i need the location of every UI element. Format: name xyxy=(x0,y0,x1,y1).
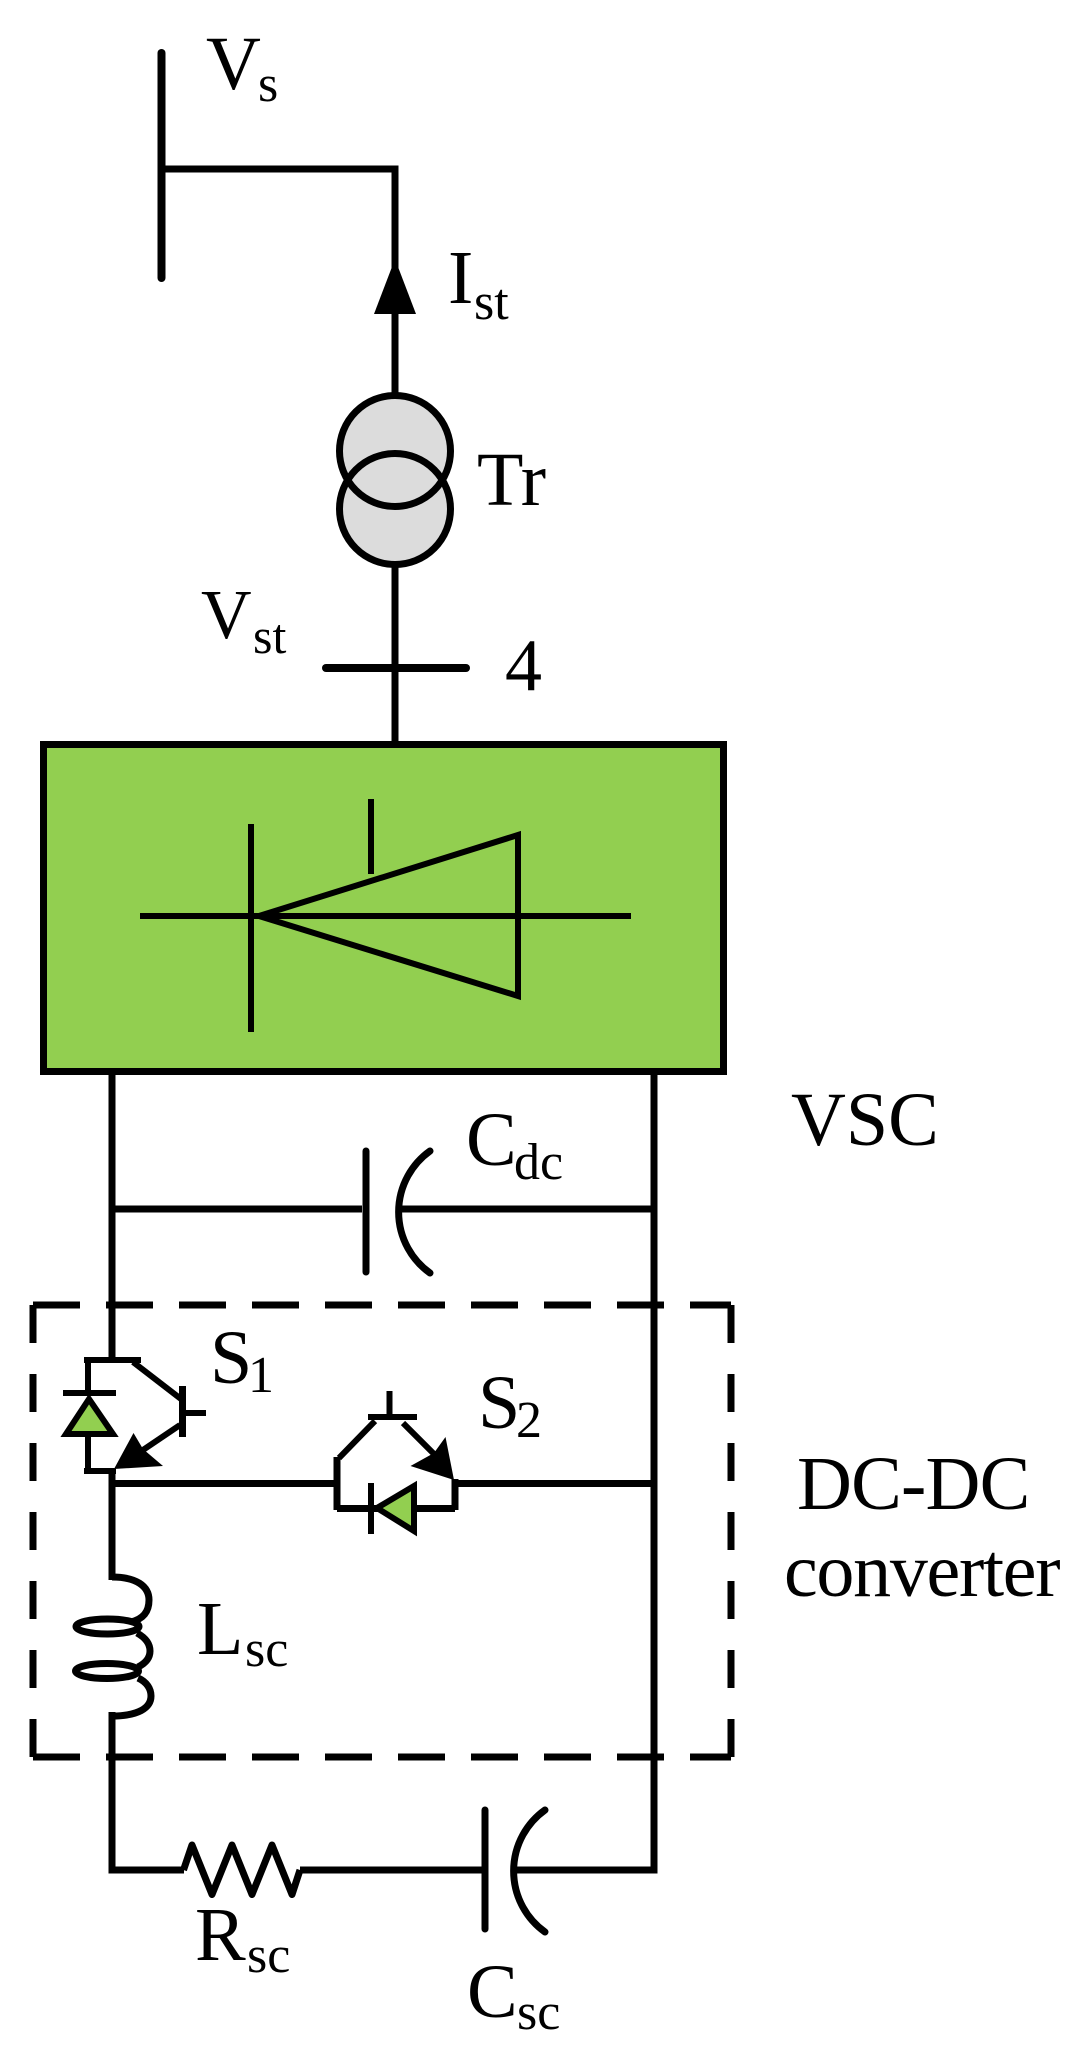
label Vst xyxy=(201,577,286,664)
label Lsc xyxy=(197,1587,288,1678)
wire Lsc to bottom rail xyxy=(109,1712,116,1874)
svg-text:1: 1 xyxy=(248,1347,274,1404)
transformer Tr (two overlapping circles) xyxy=(340,396,451,565)
switch S2: left terminal bar xyxy=(334,1457,341,1510)
resistor Rsc (zigzag) xyxy=(184,1845,301,1895)
svg-text:V: V xyxy=(201,577,252,654)
svg-text:2: 2 xyxy=(516,1392,542,1449)
capacitor Csc: curved plate xyxy=(514,1810,545,1932)
svg-text:sc: sc xyxy=(517,1984,560,2041)
switch S1: IGBT emitter diagonal xyxy=(140,1425,180,1452)
wire S1 to mid node xyxy=(109,1468,116,1580)
switch S2: emitter diagonal xyxy=(403,1423,436,1456)
diode D1 cathode bar xyxy=(63,1390,116,1396)
wire resistor to Csc xyxy=(300,1867,483,1874)
DC-DC converter dashed box xyxy=(33,1305,731,1757)
VSC valve symbol: horizontal line xyxy=(140,913,631,919)
wire left dc lead from VSC xyxy=(109,1075,116,1360)
capacitor Cdc: curved plate xyxy=(399,1151,430,1273)
switch S1: IGBT emitter arrow xyxy=(114,1433,163,1469)
label Ist xyxy=(448,236,509,331)
switch S1: IGBT collector diagonal xyxy=(133,1362,181,1399)
wire from Vs bus to transformer xyxy=(158,169,395,400)
label Cdc xyxy=(466,1098,563,1191)
wire bottom rail to resistor xyxy=(112,1867,184,1874)
switch S1: IGBT bar xyxy=(179,1386,186,1437)
svg-text:VSC: VSC xyxy=(791,1078,939,1162)
inductor Lsc coil xyxy=(76,1577,152,1716)
label 4 (bus number) xyxy=(505,625,542,707)
wire mid rail right (S2 to right lead) xyxy=(452,1480,654,1487)
svg-text:V: V xyxy=(206,22,261,106)
label converter xyxy=(784,1529,1060,1613)
wire Csc to right lead xyxy=(513,1867,654,1874)
switch S2: collector diagonal xyxy=(339,1421,375,1458)
switch S1: IGBT gate lead xyxy=(185,1410,206,1416)
VSC valve symbol: left cathode bar xyxy=(248,824,254,1032)
bus 4 (horizontal bus bar Vst) xyxy=(326,664,466,672)
svg-text:sc: sc xyxy=(247,1927,290,1984)
svg-text:S: S xyxy=(478,1361,520,1445)
switch S2: emitter arrow xyxy=(411,1437,455,1480)
svg-text:L: L xyxy=(197,1587,243,1671)
diode D2 cathode bar xyxy=(368,1483,374,1534)
wire left to Cdc xyxy=(112,1206,362,1213)
diode D2 triangle xyxy=(377,1486,414,1531)
switch S1: left branch lower lead xyxy=(85,1434,91,1472)
svg-text:C: C xyxy=(467,1950,518,2034)
label Vs xyxy=(206,22,278,113)
switch S1: bottom bar xyxy=(84,1468,116,1474)
label Rsc xyxy=(195,1893,290,1984)
svg-text:R: R xyxy=(195,1893,246,1977)
svg-text:DC-DC: DC-DC xyxy=(797,1442,1029,1526)
wire transformer to bus 4 xyxy=(392,562,399,744)
label S1 xyxy=(210,1316,274,1404)
svg-text:converter: converter xyxy=(784,1529,1060,1613)
svg-text:C: C xyxy=(466,1098,517,1182)
svg-text:dc: dc xyxy=(514,1134,563,1191)
capacitor Csc: flat plate xyxy=(482,1810,489,1929)
VSC converter block (green box) xyxy=(44,745,724,1072)
wire Cdc to right lead xyxy=(398,1206,654,1213)
svg-text:s: s xyxy=(258,56,278,113)
wire mid rail left (S1 to S2) xyxy=(112,1480,340,1487)
VSC valve symbol: gate line xyxy=(368,799,374,874)
switch S1: left branch upper lead xyxy=(85,1357,91,1392)
switch S2: gate bar xyxy=(368,1414,417,1420)
capacitor Cdc: flat plate xyxy=(363,1151,370,1272)
diode D1 triangle xyxy=(66,1399,113,1434)
arrow Ist (current direction, pointing up) xyxy=(374,259,416,314)
svg-text:st: st xyxy=(253,608,286,664)
svg-text:4: 4 xyxy=(505,625,542,707)
label S2 xyxy=(478,1361,542,1449)
label Csc xyxy=(467,1950,560,2041)
svg-text:I: I xyxy=(448,236,473,320)
switch S2: gate lead xyxy=(387,1391,393,1415)
label VSC xyxy=(791,1078,939,1162)
switch S2: bottom path wire xyxy=(337,1505,455,1512)
label DC-DC xyxy=(797,1442,1029,1526)
bus Vs (vertical bus bar) xyxy=(158,53,166,278)
svg-text:S: S xyxy=(210,1316,252,1400)
switch S2: right terminal bar xyxy=(452,1479,459,1510)
wire right dc lead from VSC down to bottom rail xyxy=(651,1075,658,1874)
VSC valve symbol: triangle xyxy=(259,835,518,996)
switch S1: top bar xyxy=(84,1357,141,1363)
label Tr xyxy=(477,438,546,522)
svg-text:Tr: Tr xyxy=(477,438,546,522)
svg-text:st: st xyxy=(474,274,509,331)
svg-text:sc: sc xyxy=(245,1621,288,1678)
